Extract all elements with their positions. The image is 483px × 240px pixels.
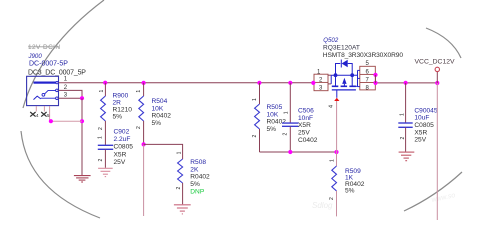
svg-text:HSMT8_3R30X3R30X0R90: HSMT8_3R30X3R30X0R90 (323, 52, 404, 59)
svg-text:1: 1 (284, 111, 290, 114)
svg-text:Q502: Q502 (323, 37, 339, 44)
node junction R504 top (142, 81, 146, 85)
R900 labels (113, 92, 133, 120)
svg-text:R508: R508 (190, 159, 206, 166)
svg-text:C0805: C0805 (414, 122, 434, 129)
svg-text:R505: R505 (267, 104, 283, 111)
wire to R508 (144, 144, 183, 159)
ground C902 (98, 168, 113, 176)
node junction R900 top (103, 81, 107, 85)
ground R508 (174, 205, 191, 214)
VCC port stub (436, 72, 438, 84)
watermark arc top-right (426, 28, 461, 58)
wire pin1 to rail (59, 82, 106, 84)
svg-text:Sdlog: Sdlog (312, 201, 333, 210)
mosfet Q502 symbol (328, 60, 358, 98)
svg-text:2K: 2K (190, 166, 199, 173)
svg-text:1: 1 (99, 90, 105, 93)
svg-text:X5R: X5R (114, 151, 127, 158)
svg-text:DC-0007-5P: DC-0007-5P (29, 61, 68, 68)
svg-text:R504: R504 (152, 98, 168, 105)
svg-text:1: 1 (176, 151, 182, 154)
resistor R509 (332, 152, 337, 216)
svg-text:1: 1 (136, 90, 142, 93)
svg-text:RQ3E120AT: RQ3E120AT (323, 45, 360, 52)
node junction rail into Q502 (311, 81, 315, 85)
wire pin3 (59, 97, 83, 99)
connector mount stub pin 4 (35, 106, 37, 112)
capacitor C90045 (398, 83, 412, 152)
svg-text:2: 2 (283, 133, 289, 136)
svg-text:R0402: R0402 (267, 119, 287, 126)
svg-text:DNP: DNP (190, 188, 205, 195)
VCC port circle (435, 67, 439, 71)
node junctions Q502 output (373, 73, 377, 77)
wire rail right of Q502 (375, 82, 437, 84)
C506 labels (298, 107, 318, 143)
svg-text:2: 2 (329, 197, 335, 200)
svg-text:10uF: 10uF (414, 115, 429, 122)
transistor Q502 left pin box (314, 74, 328, 92)
connector mount stub pin 6 (50, 106, 82, 121)
svg-text:1: 1 (252, 98, 258, 101)
node junction R505 top (257, 81, 261, 85)
svg-text:2: 2 (176, 187, 182, 190)
connector mount stub pin 5 (43, 106, 45, 112)
svg-text:25V: 25V (114, 159, 126, 166)
svg-text:1: 1 (330, 159, 336, 162)
node junction C506 top (288, 81, 292, 85)
svg-text:2.2uF: 2.2uF (114, 136, 131, 143)
svg-text:C902: C902 (114, 128, 130, 135)
watermark arc bottom-right (404, 172, 462, 211)
svg-text:1: 1 (400, 113, 406, 116)
R504 labels (152, 98, 172, 127)
svg-text:5%: 5% (267, 126, 277, 133)
node junction gate (334, 150, 338, 154)
svg-text:X5R: X5R (298, 122, 311, 129)
resistor R505 (255, 83, 260, 152)
node junction C506 bottom (288, 150, 292, 154)
node junction shield (80, 119, 84, 123)
svg-text:10K: 10K (267, 111, 279, 118)
svg-text:R0402: R0402 (152, 113, 172, 120)
node junction R504 bottom (142, 142, 146, 146)
svg-text:12V DCIN: 12V DCIN (28, 44, 60, 51)
resistor R900 (101, 83, 106, 145)
svg-text:25V: 25V (414, 137, 426, 144)
wire shield column to ground (81, 98, 83, 175)
resistor R504 (139, 83, 144, 145)
svg-text:1: 1 (98, 136, 104, 139)
transistor Q502 gate pin4 arrow (334, 98, 339, 101)
R508 labels (190, 159, 210, 195)
svg-text:4: 4 (329, 105, 335, 108)
svg-text:VCC_DC12V: VCC_DC12V (415, 59, 456, 66)
wire gate node line (260, 151, 337, 153)
wire gate down (336, 101, 338, 152)
svg-text:5%: 5% (345, 188, 355, 195)
connector J900 body (27, 76, 59, 105)
wire main 12V rail (105, 82, 314, 84)
resistor R508 (178, 159, 183, 204)
no-connect X pin 4 (30, 112, 35, 117)
R505 labels (267, 104, 287, 133)
no-connect X pin 5 (41, 112, 46, 117)
svg-text:C0805: C0805 (114, 143, 134, 150)
node junction pin2-3 (80, 96, 84, 100)
ground C90045 (399, 152, 415, 161)
svg-text:2: 2 (136, 126, 142, 129)
svg-text:2: 2 (98, 127, 104, 130)
svg-text:5%: 5% (113, 114, 123, 121)
svg-text:C506: C506 (298, 107, 314, 114)
mosfet drain bus (358, 70, 360, 86)
svg-text:R1210: R1210 (113, 107, 133, 114)
svg-text:10K: 10K (152, 105, 164, 112)
transistor Q502 right pin box (360, 66, 376, 91)
R509 labels (345, 168, 365, 195)
svg-text:2: 2 (98, 159, 104, 162)
svg-text:R0402: R0402 (190, 174, 210, 181)
node junction VCC (435, 81, 439, 85)
svg-text:J900: J900 (28, 53, 43, 60)
svg-text:25V: 25V (298, 130, 310, 137)
wire pin2 (59, 90, 83, 98)
svg-text:2R: 2R (113, 99, 122, 106)
svg-text:2: 2 (400, 137, 406, 140)
ground shield (74, 176, 91, 182)
wire R504 tail down (143, 144, 145, 216)
svg-text:5%: 5% (190, 181, 200, 188)
wire VCC tail down (436, 83, 438, 220)
transistor Q502 labels (323, 37, 404, 59)
svg-text:5%: 5% (152, 120, 162, 127)
watermark arc upper-left (23, 0, 104, 108)
svg-text:2: 2 (252, 135, 258, 138)
svg-text:X5R: X5R (414, 129, 427, 136)
C902 labels (114, 128, 134, 166)
capacitor C902 (98, 136, 114, 168)
capacitor C506 (282, 83, 299, 152)
svg-text:10nF: 10nF (298, 115, 313, 122)
svg-text:C90045: C90045 (414, 107, 437, 114)
svg-text:DC3_DC_0007_5P: DC3_DC_0007_5P (28, 69, 86, 76)
node junction mount (49, 119, 53, 123)
node junction C90045 top (404, 81, 408, 85)
C90045 labels (414, 107, 437, 143)
svg-text:C0402: C0402 (298, 137, 318, 144)
watermark arc lower-left (21, 131, 100, 218)
